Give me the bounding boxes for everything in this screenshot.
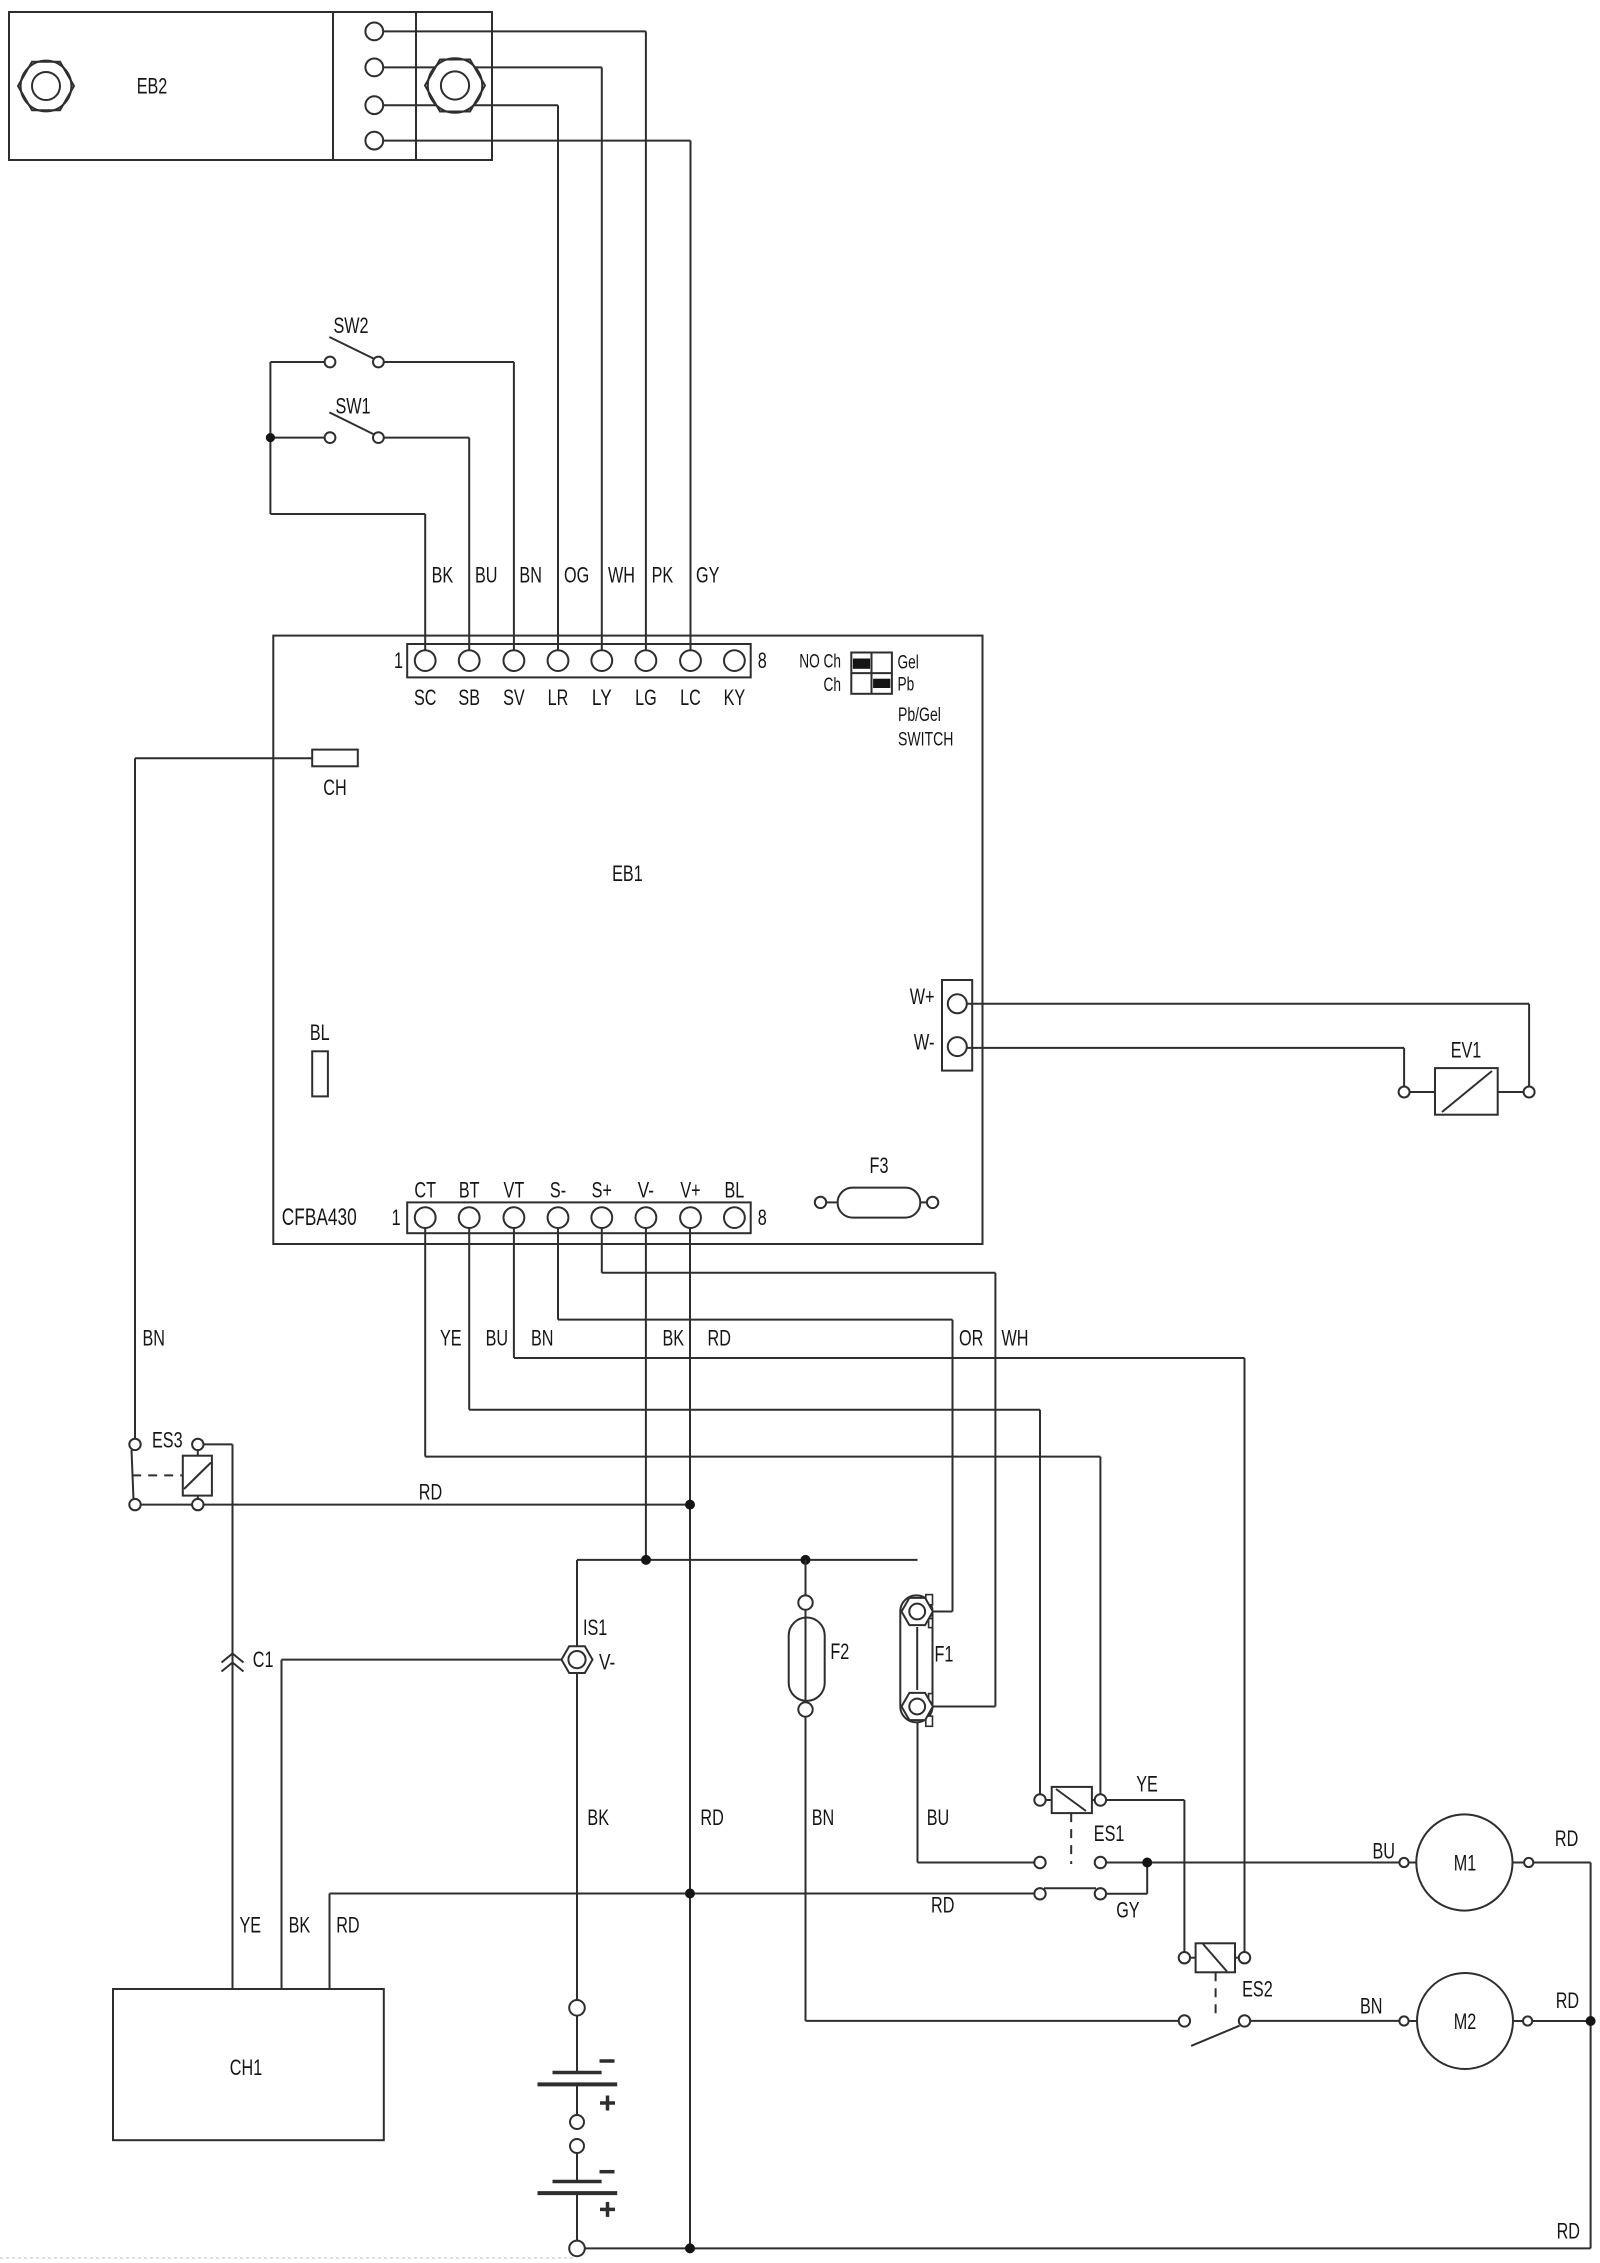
svg-text:F2: F2 [830, 1639, 849, 1664]
svg-text:RD: RD [1555, 1826, 1578, 1851]
svg-text:EB2: EB2 [137, 74, 168, 99]
svg-text:BN: BN [531, 1326, 554, 1351]
svg-text:CT: CT [414, 1178, 436, 1203]
svg-text:BL: BL [725, 1178, 745, 1203]
svg-text:SB: SB [458, 685, 480, 710]
svg-text:F1: F1 [935, 1642, 954, 1667]
svg-text:CH: CH [323, 775, 346, 800]
svg-text:ES3: ES3 [152, 1428, 183, 1453]
svg-text:SWITCH: SWITCH [898, 729, 953, 751]
svg-text:M2: M2 [1454, 2009, 1477, 2034]
svg-text:V-: V- [638, 1178, 654, 1203]
svg-text:V+: V+ [680, 1178, 700, 1203]
svg-text:SW1: SW1 [335, 394, 370, 419]
svg-text:8: 8 [758, 1205, 767, 1230]
svg-text:OR: OR [959, 1326, 983, 1351]
svg-text:BK: BK [587, 1805, 609, 1830]
svg-text:RD: RD [336, 1913, 359, 1938]
svg-text:W+: W+ [910, 984, 935, 1009]
svg-text:1: 1 [394, 648, 403, 673]
svg-text:WH: WH [608, 563, 635, 588]
svg-text:VT: VT [504, 1178, 525, 1203]
svg-text:SW2: SW2 [333, 313, 368, 338]
svg-text:EB1: EB1 [612, 861, 643, 886]
svg-text:SC: SC [414, 685, 437, 710]
svg-text:BU: BU [486, 1326, 509, 1351]
svg-text:ES2: ES2 [1242, 1977, 1273, 2002]
svg-text:SV: SV [503, 685, 525, 710]
svg-text:BL: BL [310, 1020, 330, 1045]
svg-text:LG: LG [635, 685, 657, 710]
svg-text:ES1: ES1 [1094, 1821, 1125, 1846]
svg-text:M1: M1 [1454, 1851, 1477, 1876]
svg-text:Gel: Gel [898, 653, 919, 674]
svg-text:1: 1 [392, 1205, 401, 1230]
svg-text:BU: BU [927, 1805, 950, 1830]
svg-text:BU: BU [475, 563, 498, 588]
svg-text:S+: S+ [592, 1178, 612, 1203]
svg-text:GY: GY [696, 563, 719, 588]
svg-text:LC: LC [680, 685, 701, 710]
svg-text:RD: RD [708, 1326, 731, 1351]
svg-text:BN: BN [1360, 1994, 1383, 2019]
svg-text:Pb: Pb [898, 675, 915, 696]
svg-text:BK: BK [663, 1326, 685, 1351]
svg-text:RD: RD [700, 1805, 723, 1830]
svg-text:BN: BN [519, 563, 542, 588]
svg-text:V-: V- [599, 1650, 615, 1675]
svg-text:RD: RD [1556, 1988, 1579, 2013]
svg-text:C1: C1 [253, 1647, 274, 1672]
svg-text:IS1: IS1 [583, 1615, 607, 1640]
svg-text:YE: YE [1136, 1772, 1158, 1797]
svg-text:8: 8 [758, 648, 767, 673]
svg-text:CFBA430: CFBA430 [282, 1204, 357, 1231]
svg-text:S-: S- [550, 1178, 566, 1203]
svg-text:NO Ch: NO Ch [799, 651, 841, 672]
svg-text:BT: BT [459, 1178, 480, 1203]
svg-text:BK: BK [289, 1913, 311, 1938]
svg-text:CH1: CH1 [230, 2055, 262, 2080]
svg-text:RD: RD [419, 1480, 442, 1505]
svg-text:RD: RD [1557, 2218, 1580, 2243]
svg-text:EV1: EV1 [1451, 1038, 1482, 1063]
svg-text:LR: LR [548, 685, 569, 710]
svg-text:YE: YE [440, 1326, 462, 1351]
svg-text:GY: GY [1116, 1898, 1139, 1923]
svg-text:F3: F3 [870, 1153, 889, 1178]
svg-text:BK: BK [432, 563, 454, 588]
svg-text:W-: W- [914, 1029, 935, 1054]
svg-text:RD: RD [931, 1893, 954, 1918]
svg-text:PK: PK [652, 563, 674, 588]
svg-text:BU: BU [1373, 1839, 1396, 1864]
svg-text:WH: WH [1002, 1326, 1029, 1351]
svg-text:OG: OG [564, 563, 589, 588]
svg-text:Pb/Gel: Pb/Gel [898, 704, 941, 726]
svg-text:BN: BN [143, 1326, 166, 1351]
svg-text:Ch: Ch [824, 675, 842, 696]
svg-text:KY: KY [724, 685, 746, 710]
svg-text:YE: YE [240, 1913, 262, 1938]
svg-text:BN: BN [812, 1805, 835, 1830]
svg-text:LY: LY [592, 685, 612, 710]
